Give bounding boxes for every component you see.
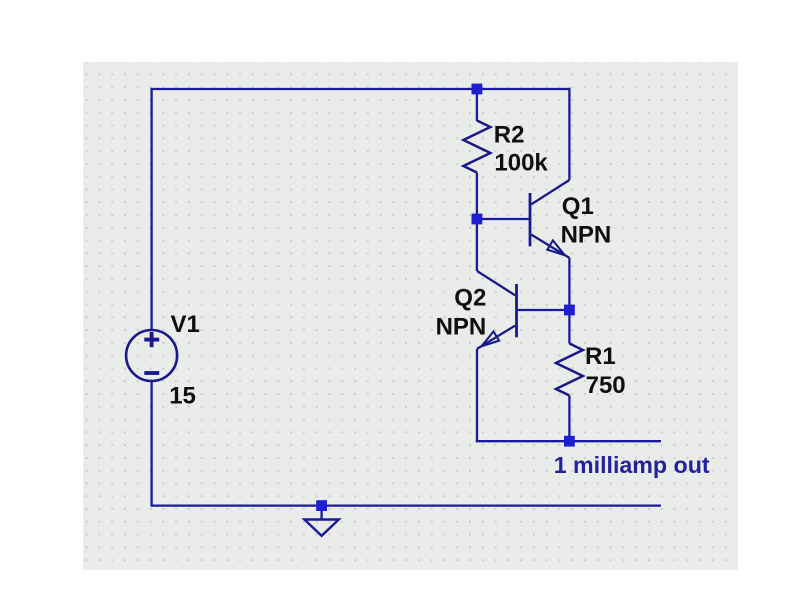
svg-text:NPN: NPN <box>436 314 487 341</box>
svg-text:R1: R1 <box>585 343 616 370</box>
junction node R2 / Q1 base <box>472 214 483 225</box>
wire Q1 emitter to node <box>568 258 570 310</box>
wire R2 bottom lead <box>476 173 478 220</box>
wire left rail upper <box>150 88 152 331</box>
wire R2 top lead <box>476 89 478 121</box>
ground symbol <box>304 508 338 536</box>
grid dots <box>83 62 738 570</box>
svg-text:750: 750 <box>586 372 626 399</box>
junction node ground <box>316 500 327 511</box>
wire Q2 base <box>517 309 570 311</box>
junction node Q1 emitter / Q2 base / R1 <box>564 305 575 316</box>
svg-text:NPN: NPN <box>561 222 612 249</box>
transistor Q1 <box>530 180 569 258</box>
wire Q1 base <box>477 218 530 220</box>
svg-text:15: 15 <box>169 382 196 409</box>
wire Q2 emitter drop <box>476 349 478 441</box>
schematic canvas <box>83 62 738 570</box>
wire R1 top lead <box>568 310 570 344</box>
svg-text:R2: R2 <box>494 122 525 149</box>
wire R1 bottom lead <box>568 396 570 442</box>
wire Q2 collector drop <box>476 219 478 271</box>
svg-text:100k: 100k <box>494 150 548 177</box>
svg-text:Q1: Q1 <box>562 193 594 220</box>
svg-text:Q2: Q2 <box>454 285 486 312</box>
voltage source V1 <box>126 330 177 381</box>
resistor R2 100k <box>463 121 490 173</box>
junction node R1 / output rail <box>564 436 575 447</box>
wire output rail <box>476 440 661 442</box>
transistor Q2 <box>477 271 517 349</box>
svg-text:1 milliamp out: 1 milliamp out <box>554 452 710 478</box>
wire left rail lower <box>150 381 152 506</box>
wire top rail <box>152 88 570 90</box>
resistor R1 750 <box>556 344 583 396</box>
wire Q1 collector rail <box>568 88 570 180</box>
junction node at top rail / R2 <box>472 84 483 95</box>
wire bottom rail <box>151 504 662 506</box>
svg-text:V1: V1 <box>171 311 200 338</box>
